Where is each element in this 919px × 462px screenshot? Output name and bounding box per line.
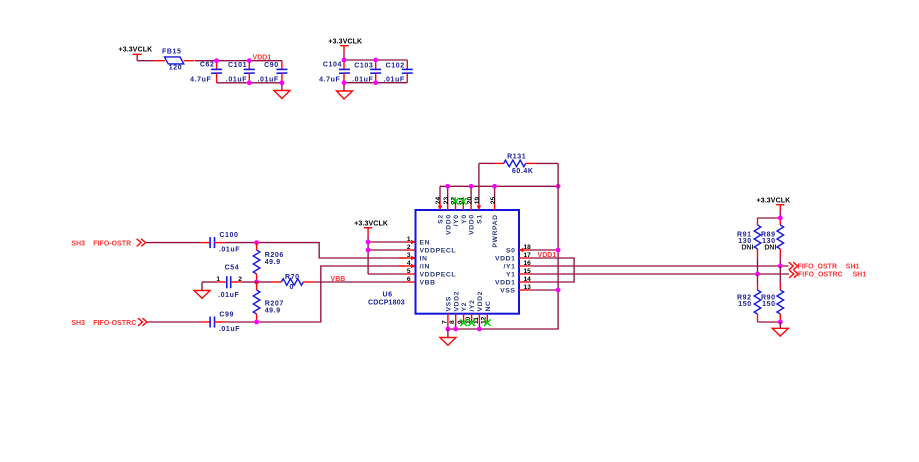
- svg-text:S1: S1: [477, 214, 484, 224]
- svg-text:S2: S2: [438, 214, 445, 224]
- svg-text:Y1: Y1: [506, 272, 516, 279]
- arrow pin 1: [411, 240, 416, 245]
- svg-text:4.7uF: 4.7uF: [319, 76, 340, 83]
- svg-text:FIFO_OSTRC: FIFO_OSTRC: [798, 271, 843, 278]
- svg-text:VDD0: VDD0: [445, 214, 452, 235]
- port FIFO_OSTRC SH1: [789, 270, 866, 278]
- wire top rail: [344, 59, 407, 61]
- ground (right): [772, 322, 788, 336]
- svg-text:60.4K: 60.4K: [512, 168, 534, 175]
- wire VDD1 top rail: [195, 60, 282, 62]
- svg-text:/IN: /IN: [420, 264, 431, 271]
- junction dot: [778, 320, 783, 325]
- svg-text:EN: EN: [420, 240, 431, 247]
- right pin names: [495, 248, 516, 295]
- wire right vertical VSS net: [448, 163, 558, 329]
- resistor R131: [479, 154, 558, 176]
- red pin leads IN //IN VBB at chip: [399, 258, 416, 282]
- svg-text:14: 14: [524, 276, 532, 283]
- resistor R206: [253, 243, 284, 282]
- svg-text:150: 150: [762, 301, 775, 308]
- svg-text:FIFO_OSTR: FIFO_OSTR: [798, 263, 838, 270]
- svg-text:DNI: DNI: [741, 245, 753, 252]
- svg-text:+3.3VCLK: +3.3VCLK: [354, 220, 388, 227]
- pin 9 Y2 no-connect: [463, 314, 465, 322]
- power symbol +3.3VCLK (right): [757, 197, 791, 218]
- svg-text:C102: C102: [386, 63, 405, 70]
- svg-text:FB15: FB15: [162, 48, 182, 55]
- capacitor C100: [201, 232, 240, 254]
- svg-text:17: 17: [524, 252, 532, 259]
- svg-text:R70: R70: [285, 274, 300, 281]
- power symbol +3.3VCLK (top-left): [119, 47, 153, 61]
- arrow pin 4: [411, 264, 416, 269]
- resistor R92: [737, 274, 761, 322]
- svg-text:2: 2: [238, 276, 242, 283]
- svg-text:VDDPECL: VDDPECL: [420, 248, 457, 255]
- svg-text:VDD2: VDD2: [453, 291, 460, 312]
- junction dots top-left group: [214, 58, 284, 85]
- svg-text:+3.3VCLK: +3.3VCLK: [119, 47, 153, 54]
- svg-text:VDDPECL: VDDPECL: [420, 272, 457, 279]
- capacitor C103: [352, 60, 381, 83]
- svg-text:/Y1: /Y1: [503, 264, 515, 271]
- svg-text:49.9: 49.9: [265, 259, 281, 266]
- top pin numbers rotated: [435, 197, 497, 205]
- capacitor C101: [226, 61, 255, 84]
- svg-text:U6: U6: [383, 292, 393, 299]
- junction node: [254, 280, 259, 285]
- power symbol +3.3VCLK (chip left): [354, 220, 388, 236]
- svg-text:18: 18: [524, 244, 532, 251]
- wire pin 16 /Y1 to FIFO_OSTR: [519, 265, 789, 267]
- junction dots pins 1,2: [366, 240, 371, 253]
- wire FIFO-OSTR to pin IN: [226, 243, 406, 258]
- svg-text:FIFO-OSTRC: FIFO-OSTRC: [93, 320, 136, 327]
- svg-text:IN: IN: [420, 256, 428, 263]
- svg-text:FIFO-OSTR: FIFO-OSTR: [93, 240, 131, 247]
- top pin names rotated: [438, 214, 500, 247]
- svg-text:CDCP1803: CDCP1803: [368, 299, 405, 306]
- wire FIFO-OSTRC to pin /IN: [226, 266, 406, 322]
- pin 22 /Y0 no-connect: [455, 202, 457, 210]
- svg-text:2: 2: [407, 244, 411, 251]
- capacitor C62: [190, 61, 222, 84]
- resistor R207: [253, 282, 284, 322]
- pin 17 VDD1 jog to pin 14: [519, 258, 574, 282]
- svg-text:5: 5: [407, 268, 411, 275]
- left pin names: [420, 240, 457, 287]
- svg-text:3: 3: [407, 252, 411, 259]
- svg-text:DNI: DNI: [764, 245, 776, 252]
- wire: [147, 321, 201, 323]
- svg-text:4.7uF: 4.7uF: [190, 76, 211, 83]
- svg-text:R131: R131: [507, 154, 526, 161]
- wire: [137, 60, 154, 62]
- junction dots right top: [755, 216, 783, 277]
- svg-text:VDD1: VDD1: [495, 256, 516, 263]
- wire VBB to pin 6: [313, 281, 406, 283]
- svg-text:4: 4: [407, 260, 411, 267]
- svg-text:VSS: VSS: [500, 288, 515, 295]
- svg-text:C101: C101: [228, 62, 247, 69]
- svg-text:VDD1: VDD1: [253, 54, 272, 61]
- arrow pin 3: [411, 256, 416, 261]
- svg-text:VSS: VSS: [446, 296, 453, 311]
- pin 8 VDD2 bottom: [453, 314, 458, 332]
- pin 13 VSS stub: [519, 288, 560, 293]
- junction dots second group: [342, 58, 379, 86]
- svg-text:1: 1: [407, 236, 411, 243]
- resistor R89 (DNI): [761, 218, 784, 266]
- svg-text:C62: C62: [200, 61, 215, 68]
- wire pin 15 Y1 to FIFO_OSTRC: [519, 273, 789, 275]
- svg-text:25: 25: [490, 197, 497, 205]
- svg-text:C99: C99: [219, 311, 234, 318]
- port SH3 FIFO-OSTRC: [71, 318, 147, 327]
- svg-text:/Y2: /Y2: [469, 299, 476, 311]
- bottom pin numbers rotated: [441, 316, 487, 324]
- op-amp U6 chip body CDCP1803: [416, 210, 520, 314]
- ground (C54): [194, 282, 210, 298]
- pin 24 S2: [438, 186, 443, 210]
- capacitor C104: [319, 60, 350, 83]
- wire pin 5 VDDPECL: [368, 273, 415, 275]
- svg-text:6: 6: [407, 276, 411, 283]
- svg-text:VDD1: VDD1: [538, 252, 557, 259]
- wire top bus VDD1: [440, 185, 558, 187]
- svg-text:SH1: SH1: [853, 271, 867, 278]
- svg-text:NC: NC: [485, 300, 492, 311]
- svg-text:150: 150: [738, 301, 751, 308]
- wire power vertical to pins 1,2,5: [367, 236, 369, 274]
- no-connect X marks overlay: [452, 198, 490, 326]
- resistor R90: [761, 266, 784, 322]
- svg-text:7: 7: [441, 320, 448, 324]
- svg-text:VDD0: VDD0: [469, 214, 476, 235]
- junction node: [254, 240, 259, 245]
- wire: [146, 242, 201, 244]
- wire pin 1 EN: [368, 241, 414, 243]
- svg-text:SH1: SH1: [846, 263, 860, 270]
- capacitor C102: [384, 60, 413, 83]
- svg-text:120: 120: [169, 64, 182, 71]
- ground: [337, 91, 353, 99]
- pin 12 NC no-connect: [486, 314, 488, 322]
- pin 23 VDD0 stub: [447, 186, 449, 210]
- right pin numbers: [524, 244, 532, 291]
- svg-text:0: 0: [289, 284, 294, 291]
- capacitor C54: [202, 265, 257, 299]
- left pin numbers 1-6: [407, 236, 411, 283]
- svg-text:Y0: Y0: [461, 214, 468, 224]
- svg-text:VBB: VBB: [420, 280, 436, 287]
- svg-text:13: 13: [524, 284, 532, 291]
- svg-text:+3.3VCLK: +3.3VCLK: [757, 197, 791, 204]
- svg-text:C54: C54: [225, 265, 240, 272]
- pin 18 S0: [519, 248, 561, 253]
- svg-text:49.9: 49.9: [265, 307, 281, 314]
- wire top rail right: [758, 217, 781, 219]
- pin 11 VDD2 bottom: [477, 314, 482, 332]
- svg-text:VDD2: VDD2: [477, 291, 484, 312]
- svg-text:Y2: Y2: [461, 302, 468, 312]
- svg-text:S0: S0: [506, 248, 516, 255]
- ground: [274, 91, 290, 99]
- pin 25 PWRPAD stub: [494, 186, 496, 210]
- wire bottom rail: [344, 83, 407, 91]
- wire bottom rail right: [758, 321, 781, 323]
- pin 21 Y0 no-connect: [462, 202, 464, 210]
- svg-text:24: 24: [435, 197, 442, 205]
- bottom pin names rotated: [446, 291, 492, 312]
- svg-text:C90: C90: [264, 62, 279, 69]
- junction dots top bus: [445, 184, 560, 189]
- svg-text:16: 16: [524, 260, 532, 267]
- svg-text:C103: C103: [354, 63, 373, 70]
- svg-text:R206: R206: [265, 252, 284, 259]
- svg-text:VBB: VBB: [331, 276, 346, 283]
- power symbol +3.3VCLK (second group): [328, 38, 362, 60]
- svg-text:C100: C100: [219, 232, 238, 239]
- svg-text:1: 1: [216, 276, 220, 283]
- svg-text:/Y0: /Y0: [453, 214, 460, 226]
- svg-text:SH3: SH3: [71, 240, 85, 247]
- wire bottom rail: [217, 83, 282, 91]
- ferrite bead FB15: [154, 48, 195, 71]
- svg-text:C104: C104: [323, 62, 342, 69]
- wire pin 2 VDDPECL: [368, 249, 415, 251]
- pin 10 /Y2 no-connect: [471, 314, 473, 322]
- svg-text:23: 23: [443, 197, 450, 205]
- ground (chip): [440, 329, 456, 345]
- svg-text:19: 19: [474, 197, 481, 205]
- resistor R70: [257, 274, 313, 291]
- pin 20 VDD0 stub: [470, 186, 472, 210]
- svg-text:20: 20: [466, 197, 473, 205]
- pin 7 VSS bottom: [446, 314, 451, 332]
- svg-text:15: 15: [524, 268, 532, 275]
- svg-text:8: 8: [449, 320, 456, 324]
- svg-text:.01uF: .01uF: [219, 326, 240, 333]
- port SH3 FIFO-OSTR: [71, 239, 145, 248]
- svg-text:SH3: SH3: [71, 320, 85, 327]
- svg-text:PWRPAD: PWRPAD: [492, 214, 499, 247]
- capacitor C90: [258, 61, 288, 84]
- port FIFO_OSTR SH1: [789, 262, 860, 270]
- resistor R91 (DNI): [737, 218, 761, 274]
- svg-text:.01uF: .01uF: [218, 292, 239, 299]
- pin 19 S1 to R131: [477, 163, 482, 210]
- svg-text:VDD1: VDD1: [495, 280, 516, 287]
- junction node: [254, 320, 259, 325]
- capacitor C99: [201, 311, 240, 333]
- svg-text:.01uF: .01uF: [219, 247, 240, 254]
- svg-text:+3.3VCLK: +3.3VCLK: [328, 38, 362, 45]
